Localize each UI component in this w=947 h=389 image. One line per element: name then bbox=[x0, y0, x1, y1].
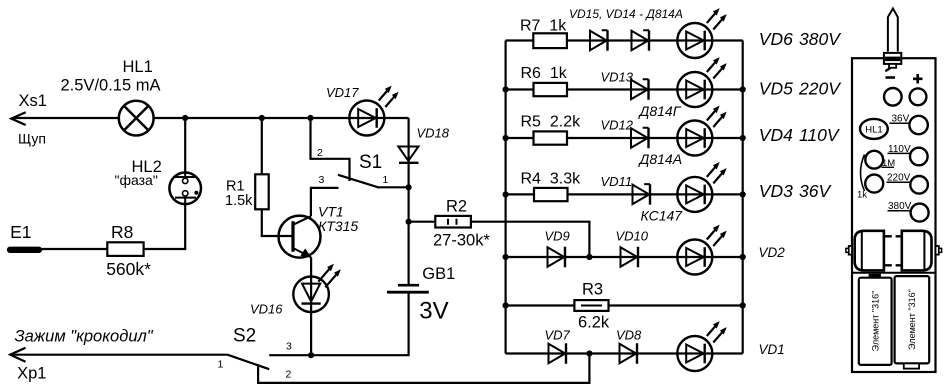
svg-text:Элемент "316": Элемент "316" bbox=[871, 291, 881, 352]
svg-text:R6 1k: R6 1k bbox=[521, 65, 568, 82]
svg-text:S1: S1 bbox=[359, 152, 382, 173]
svg-text:VD1: VD1 bbox=[759, 342, 785, 357]
svg-text:VD15, VD14 - Д814А: VD15, VD14 - Д814А bbox=[569, 7, 683, 21]
svg-text:HL1: HL1 bbox=[123, 58, 153, 76]
svg-text:КС147: КС147 bbox=[641, 207, 684, 223]
svg-text:VD3: VD3 bbox=[759, 181, 793, 201]
svg-text:VD18: VD18 bbox=[417, 126, 450, 141]
svg-text:Щуп: Щуп bbox=[18, 131, 46, 147]
svg-text:Элемент "316": Элемент "316" bbox=[907, 289, 917, 350]
svg-text:27-30k*: 27-30k* bbox=[433, 232, 490, 250]
svg-text:VD7: VD7 bbox=[545, 328, 571, 343]
svg-text:110V: 110V bbox=[799, 125, 841, 145]
svg-text:КТ315: КТ315 bbox=[318, 218, 358, 234]
svg-text:2: 2 bbox=[286, 369, 292, 381]
svg-text:Xp1: Xp1 bbox=[17, 364, 46, 382]
svg-text:VD9: VD9 bbox=[545, 229, 570, 244]
svg-text:3: 3 bbox=[319, 174, 325, 186]
svg-text:36V: 36V bbox=[799, 181, 832, 201]
svg-text:3V: 3V bbox=[419, 297, 448, 324]
svg-text:S2: S2 bbox=[233, 326, 256, 347]
svg-text:560k*: 560k* bbox=[106, 259, 151, 279]
svg-text:VD10: VD10 bbox=[616, 229, 649, 244]
svg-text:VD12: VD12 bbox=[601, 118, 634, 133]
svg-text:R3: R3 bbox=[582, 281, 603, 299]
svg-text:VD2: VD2 bbox=[759, 245, 786, 260]
svg-text:VD5: VD5 bbox=[759, 78, 793, 98]
svg-text:R5 2.2k: R5 2.2k bbox=[521, 114, 582, 131]
svg-text:VD17: VD17 bbox=[326, 85, 359, 100]
svg-text:VD13: VD13 bbox=[601, 69, 634, 84]
svg-text:R7 1k: R7 1k bbox=[520, 18, 567, 35]
svg-text:3: 3 bbox=[286, 341, 292, 353]
svg-text:Д814А: Д814А bbox=[638, 151, 683, 167]
svg-text:R2: R2 bbox=[446, 198, 467, 216]
svg-text:"фаза": "фаза" bbox=[115, 172, 158, 188]
svg-text:2.5V/0.15 mA: 2.5V/0.15 mA bbox=[61, 76, 161, 94]
svg-text:VD11: VD11 bbox=[601, 174, 633, 189]
svg-text:VD4: VD4 bbox=[759, 125, 793, 145]
svg-text:HL1: HL1 bbox=[865, 124, 882, 135]
svg-text:VD6: VD6 bbox=[759, 29, 793, 49]
svg-text:E1: E1 bbox=[10, 222, 31, 242]
svg-text:R4 3.3k: R4 3.3k bbox=[521, 171, 582, 188]
svg-text:Зажим "крокодил": Зажим "крокодил" bbox=[15, 327, 154, 345]
svg-text:1: 1 bbox=[382, 174, 388, 186]
svg-text:380V: 380V bbox=[799, 29, 842, 49]
svg-text:VD8: VD8 bbox=[616, 328, 642, 343]
svg-text:GB1: GB1 bbox=[422, 265, 455, 283]
svg-text:R8: R8 bbox=[111, 222, 133, 242]
svg-text:220V: 220V bbox=[798, 78, 842, 98]
svg-text:6.2k: 6.2k bbox=[578, 314, 610, 332]
svg-text:Д814Г: Д814Г bbox=[638, 103, 682, 119]
svg-text:2: 2 bbox=[317, 147, 323, 159]
svg-text:1.5k: 1.5k bbox=[225, 193, 253, 209]
svg-text:1k: 1k bbox=[857, 189, 867, 200]
svg-text:1: 1 bbox=[218, 359, 224, 371]
svg-text:Xs1: Xs1 bbox=[19, 92, 47, 110]
svg-text:VD16: VD16 bbox=[250, 302, 283, 317]
